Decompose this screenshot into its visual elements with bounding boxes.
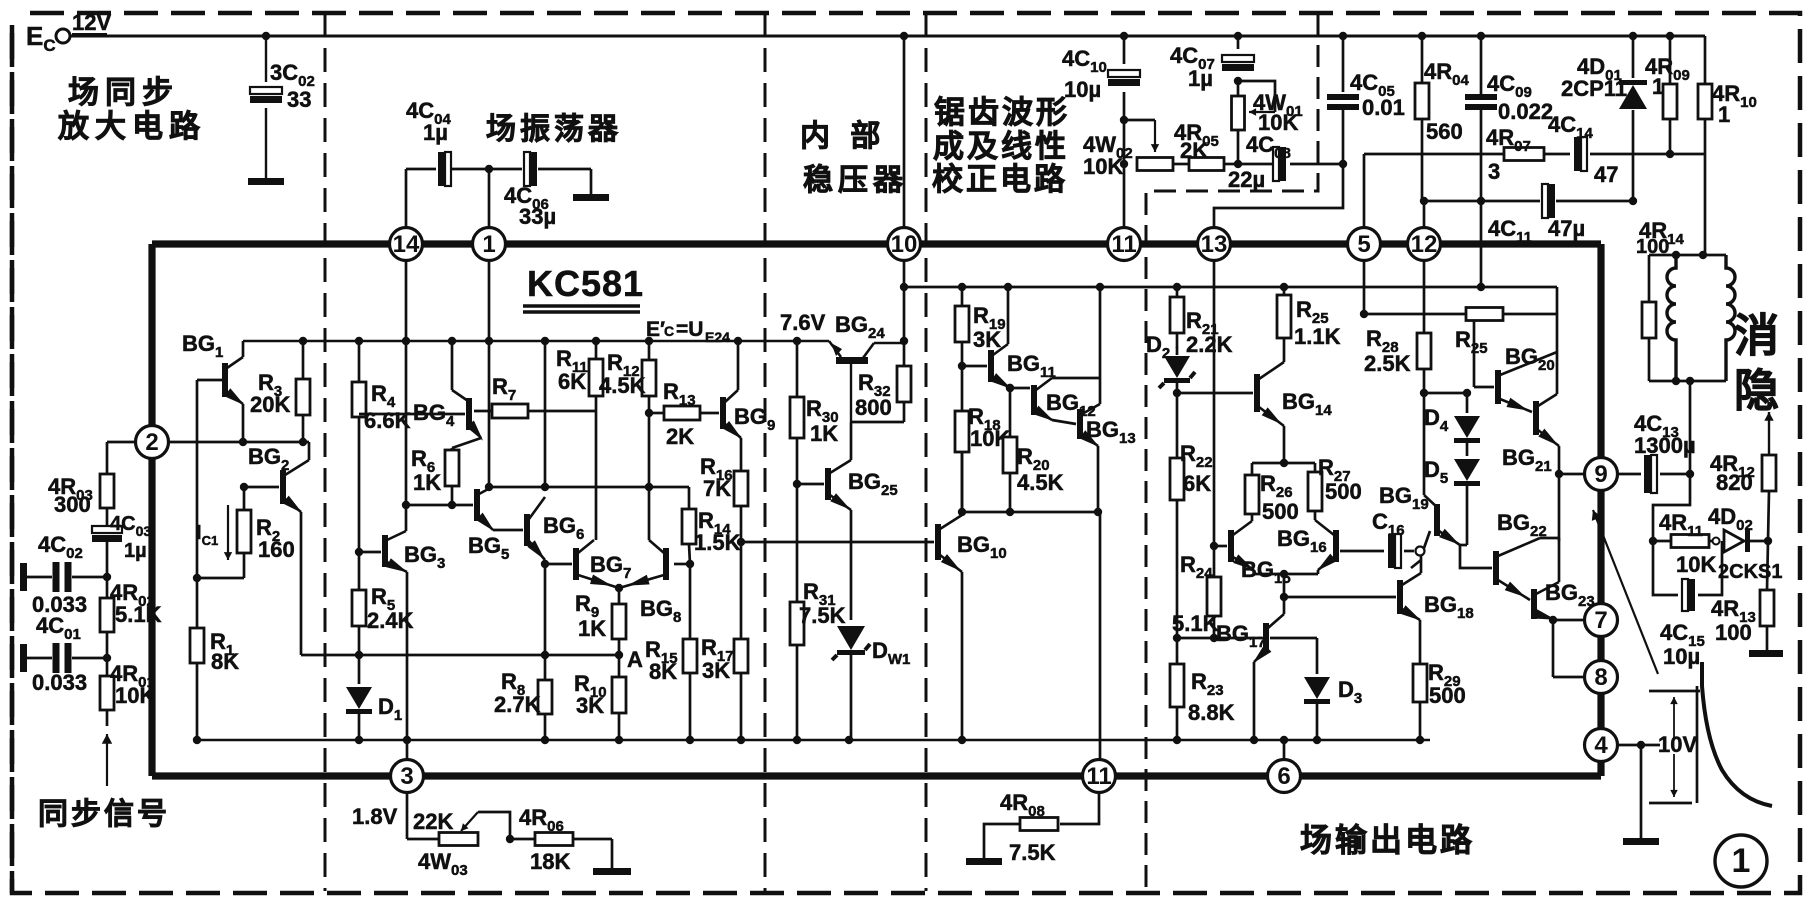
node: BG14 base node [1173, 389, 1181, 397]
svg-text:6.6K: 6.6K [364, 408, 411, 433]
wire: BG25 base [797, 483, 824, 486]
svg-text:22K: 22K [413, 809, 453, 834]
svg-text:4: 4 [1594, 732, 1608, 759]
svg-text:10V: 10V [1658, 732, 1697, 757]
wire: internal ground rail [197, 739, 1430, 742]
pin 6 [1268, 760, 1301, 793]
resistor R7 [474, 374, 596, 418]
resistor R27 500 [1308, 455, 1362, 520]
node: R9 top node [615, 584, 623, 592]
node: BG8 base dot [686, 560, 694, 568]
annotation arrow (to pin 9) [1592, 510, 1658, 674]
wire: 12V secondary net y287 [904, 286, 1557, 289]
wire: sync signal arrow [102, 734, 112, 786]
svg-text:22µ: 22µ [1228, 167, 1265, 192]
transistor BG9 [720, 390, 775, 439]
wire: BG5 base net [406, 504, 473, 507]
ground (3C02) [248, 178, 284, 185]
potentiometer 4W03 22K [413, 809, 510, 879]
svg-text:10K: 10K [1676, 552, 1716, 577]
resistor R22 6K [1170, 393, 1213, 638]
capacitor 4C10 10µ [1062, 46, 1140, 102]
diode D5 [1424, 441, 1480, 545]
resistor R23 8.8K [1170, 638, 1235, 740]
frame: section divider 3 (regulator / sawtooth) [925, 13, 928, 891]
wire: BG2 base link [244, 486, 279, 489]
svg-text:隐: 隐 [1734, 365, 1779, 416]
svg-text:KC581: KC581 [527, 263, 644, 304]
label: 场同步 放大电路 [57, 75, 206, 144]
pin 1 [473, 228, 506, 261]
wire: yoke bottom bar [1649, 380, 1726, 383]
capacitor 4C04 1µ [406, 98, 451, 186]
node: BG24 collector dot [900, 337, 908, 345]
svg-text:E′: E′ [646, 318, 665, 341]
terminal Ec (12V input) [26, 10, 111, 55]
resistor 4R14 100 [1636, 218, 1684, 381]
svg-text:18K: 18K [530, 849, 570, 874]
diode D2 (zener) [1146, 332, 1195, 393]
node: pin14 column dots [402, 501, 456, 509]
svg-text:8K: 8K [211, 649, 239, 674]
frame: section divider 4 (sawtooth / output, with jog) [1146, 13, 1318, 891]
potentiometer 4W02 10K [1083, 132, 1173, 179]
transistor BG24 (flat orientation) [829, 341, 904, 422]
diode 4D01 2CP11 [1561, 36, 1647, 201]
transistor BG19 [1379, 483, 1460, 545]
inductor: yoke left winding [1667, 255, 1676, 381]
svg-text:560: 560 [1426, 119, 1463, 144]
resistor R10 3K [574, 655, 626, 740]
wire: yoke top bar [1649, 254, 1726, 257]
label: KC581 [523, 263, 644, 312]
transistor BG20 [1495, 344, 1557, 412]
transistor BG17 [1216, 614, 1284, 664]
wire: pin5 bias net y314 [1360, 310, 1557, 318]
svg-text:3: 3 [1488, 159, 1500, 184]
svg-text:1K: 1K [413, 470, 441, 495]
svg-text:1.8V: 1.8V [352, 804, 398, 829]
resistor R21 2.2K [1170, 287, 1233, 357]
wire: +12V supply rail [70, 35, 1705, 38]
svg-text:8K: 8K [649, 659, 677, 684]
svg-text:1K: 1K [578, 616, 606, 641]
transistor BG6 [524, 497, 584, 560]
svg-text:3K: 3K [973, 327, 1001, 352]
node: BG3 base dot [355, 548, 363, 556]
wire: BG3 base [359, 551, 381, 554]
wire: BG12 base net [1006, 384, 1030, 392]
node: input junction lower [103, 654, 111, 662]
wire: 4W02-4R05 link [1173, 163, 1189, 166]
wire: BG11 collector [1004, 283, 1012, 344]
wire: BG25 emitter column [850, 510, 853, 620]
wire: 4C10 column [1123, 36, 1126, 228]
svg-text:100: 100 [1636, 236, 1669, 258]
node: A [355, 647, 643, 672]
svg-text:7: 7 [1594, 607, 1607, 634]
resistor R29 500 [1413, 620, 1466, 740]
node: 4R04 bottom dot [1420, 197, 1428, 205]
wire: yoke to 4C13 [1689, 381, 1692, 474]
svg-text:5: 5 [1357, 231, 1370, 258]
label: 内部 稳压器 [800, 119, 908, 197]
svg-text:10µ: 10µ [1663, 644, 1700, 669]
label: E'c=U_E24 [646, 318, 730, 345]
svg-text:=U: =U [676, 318, 703, 341]
resistor R25 (top) [1455, 308, 1503, 358]
transistor BG3 [382, 531, 445, 573]
wire: 4C09 column [1480, 36, 1483, 287]
wire: BG7 base [545, 563, 572, 566]
svg-text:10: 10 [891, 231, 918, 258]
capacitor 4C01 0.033 [32, 613, 87, 695]
wire: 4C03 to junction [106, 542, 109, 577]
resistor 4R12 820 [1710, 412, 1776, 541]
wire: BG9 emitter to R16 [740, 438, 743, 471]
ground (4R13) [1749, 650, 1783, 657]
svg-text:4.5K: 4.5K [1017, 470, 1064, 495]
node: yoke bottom dots [1672, 377, 1694, 385]
pin 10 [888, 228, 921, 261]
capacitor 4C06 33µ [504, 152, 556, 229]
svg-text:2CP11: 2CP11 [1561, 76, 1627, 101]
wire: BG8 base node [674, 563, 690, 566]
terminal: sync input lower [20, 644, 27, 672]
resistor R30 1K [790, 341, 839, 484]
svg-text:5.1K: 5.1K [115, 602, 162, 627]
svg-text:3: 3 [400, 763, 413, 790]
IC KC581 outline bus [152, 244, 1601, 776]
label: BG24 [835, 312, 885, 342]
capacitor 4C09 0.022 [1465, 71, 1553, 124]
resistor R26 500 [1245, 463, 1299, 524]
svg-text:1: 1 [1732, 842, 1751, 880]
svg-text:500: 500 [1262, 499, 1299, 524]
resistor 4R13 100 [1711, 541, 1774, 650]
resistor 4R06 18K [510, 805, 612, 874]
wire: BG23 emitter to pins 7/8 [1549, 616, 1584, 677]
wire: pin2 net [168, 441, 309, 444]
svg-text:消: 消 [1734, 310, 1779, 361]
wire: BG4 base [359, 413, 465, 416]
node: 4W01 top dot [1234, 77, 1242, 85]
svg-text:11: 11 [1086, 763, 1111, 790]
svg-text:160: 160 [258, 537, 295, 562]
wire: pin9 net column [1558, 474, 1561, 541]
svg-text:820: 820 [1716, 470, 1753, 495]
resistor R2 160 [197, 487, 295, 578]
diode 4D02 2CK1 [1708, 504, 1782, 583]
label: 锯齿波形成及线性校正电路 [932, 95, 1070, 197]
wire: BG10 collector [961, 452, 964, 515]
wire: BG14 base [1177, 392, 1253, 395]
resistor R11 6K [556, 341, 603, 540]
svg-text:500: 500 [1429, 683, 1466, 708]
pin 8 [1585, 661, 1618, 694]
resistor R13 2K [649, 379, 719, 449]
label: 消隐 [1734, 310, 1779, 416]
capacitor 4C07 1µ [1170, 43, 1254, 91]
wire: pin4 ground drop [1640, 745, 1643, 838]
node: BG15 base tap [1210, 542, 1218, 550]
wire: BG15/16 to BG18 base [1280, 574, 1396, 601]
wire: x1100 column to pin11 [1099, 512, 1102, 759]
wire: 4C05 column [1214, 36, 1343, 228]
node: 4D02 right node [1764, 537, 1772, 545]
wire: emitter join bar [1254, 570, 1318, 578]
resistor 4R08 7.5K [984, 790, 1058, 865]
wire: BG10 base net [741, 541, 934, 544]
wire: D5 to BG19 emitter [1460, 544, 1467, 547]
node: input junction upper [103, 573, 111, 581]
wire: 4W01 bottom [1237, 130, 1240, 164]
node: BG2 base dot [240, 483, 248, 491]
wire: BG2 emitter column [300, 512, 303, 655]
wire: pin6 stub [1283, 740, 1286, 759]
wire: lower input lead [27, 657, 107, 660]
transistor BG7 [573, 540, 631, 588]
wire: BG19 collector [1423, 393, 1426, 495]
svg-text:放大电路: 放大电路 [57, 109, 206, 144]
svg-text:10µ: 10µ [1064, 77, 1101, 102]
wire: BG3 emitter to pin3 [406, 572, 409, 759]
svg-text:7.6V: 7.6V [780, 310, 826, 335]
svg-text:0.01: 0.01 [1362, 95, 1405, 120]
current source Ic1 [196, 505, 232, 560]
resistor 4R11 10K [1653, 510, 1720, 577]
resistor R3 20K [250, 341, 310, 442]
node: supply junctions [262, 32, 1674, 40]
pin 13 [1198, 228, 1231, 261]
wire: BG6 base [493, 529, 523, 532]
wire: bias net y487 [489, 486, 689, 489]
pin 12 [1408, 228, 1441, 261]
svg-text:47: 47 [1594, 162, 1618, 187]
terminal: sync input upper [20, 563, 27, 591]
capacitor 4C05 0.01 [1327, 70, 1405, 120]
svg-text:5.1K: 5.1K [1172, 611, 1219, 636]
node: 4R09 bottom dot [1666, 150, 1674, 158]
wire: x1557 supply drop [1556, 287, 1559, 352]
wire: BG21 collector [1556, 352, 1559, 394]
resistor 4R04 560 [1415, 36, 1469, 201]
transistor BG16 [1277, 520, 1339, 571]
svg-text:3K: 3K [576, 693, 604, 718]
svg-text:2: 2 [145, 429, 158, 456]
svg-text:100: 100 [1715, 620, 1752, 645]
ground (pin4) [1623, 838, 1659, 845]
svg-text:11: 11 [1111, 231, 1136, 258]
wire: 4C06 leads [489, 169, 591, 194]
capacitor 3C02 33 [250, 60, 315, 112]
svg-text:2K: 2K [1180, 138, 1208, 163]
wire: pin1 column [488, 260, 491, 487]
ground (4C06) [573, 194, 609, 201]
wire: pin11 bottom stem [1060, 793, 1099, 824]
transistor BG25 [825, 460, 898, 510]
capacitor C16 [1372, 509, 1425, 568]
node: y287 dots [900, 283, 1485, 291]
transistor BG2 [248, 444, 309, 513]
wire: 4R07 feed [1364, 153, 1504, 156]
svg-text:2.7K: 2.7K [494, 692, 541, 717]
diode D4 [1424, 393, 1480, 443]
svg-text:7.5K: 7.5K [1009, 840, 1056, 865]
transistor BG4 [413, 390, 483, 441]
transistor BG1 [182, 331, 245, 405]
wire: x545 lower column [544, 560, 547, 678]
resistor R31 7.5K [790, 484, 846, 740]
resistor R32 800 [851, 341, 911, 422]
svg-text:800: 800 [855, 395, 892, 420]
wire: BG14 emitter [1283, 426, 1286, 463]
node: R19 bottom dot [958, 362, 966, 370]
wire: BG15 base [1214, 545, 1227, 548]
inductor: yoke right winding [1726, 255, 1735, 381]
svg-text:7.5K: 7.5K [799, 603, 846, 628]
wire: R26/R27 top bar [1252, 462, 1315, 465]
svg-text:1µ: 1µ [124, 540, 147, 562]
wire: BG21 emitter to pin9 [1555, 446, 1584, 478]
wire: BG2 collector up [308, 442, 311, 460]
transistor BG21 [1502, 394, 1559, 475]
node: 4R05/4W01 junction [1234, 160, 1242, 168]
svg-text:9: 9 [1594, 461, 1607, 488]
wire: x545 upper column [544, 341, 547, 487]
node: 4C10 bottom dots [1120, 116, 1128, 168]
wire: BG25 collector [850, 422, 853, 460]
wire: 4C11 net [1424, 200, 1633, 203]
svg-text:7K: 7K [703, 476, 731, 501]
svg-text:300: 300 [54, 492, 91, 517]
svg-text:500: 500 [1325, 479, 1362, 504]
svg-text:2.4K: 2.4K [367, 608, 414, 633]
wire: BG17 emitter [1253, 662, 1256, 740]
svg-text:6K: 6K [1183, 471, 1211, 496]
node: bias net dots [485, 483, 653, 491]
svg-text:3K: 3K [702, 658, 730, 683]
node: 4W03/4R06 junction [506, 835, 514, 843]
wire: BG13 base [1052, 420, 1076, 424]
capacitor 4C15 10µ [1653, 541, 1722, 669]
resistor R6 1K [411, 446, 459, 505]
diode D1 [346, 655, 402, 740]
potentiometer 4W01 10K [1232, 81, 1303, 135]
transistor BG13 [1077, 404, 1136, 447]
resistor 4R02 5.1K [100, 577, 162, 658]
resistor R19 3K [955, 287, 1006, 366]
transistor BG14 [1254, 362, 1332, 426]
wire: 4C07 column [1237, 36, 1240, 96]
svg-text:1µ: 1µ [1188, 66, 1213, 91]
svg-text:场振荡器: 场振荡器 [486, 113, 622, 146]
label: 场输出电路 [1300, 822, 1475, 858]
svg-text:1µ: 1µ [423, 120, 448, 145]
label: circled 1 [1715, 835, 1767, 887]
resistor R4 6.6K [352, 341, 411, 552]
node: 4C11 right dot [1629, 197, 1637, 205]
frame: section divider 1 (sync amp / oscillator) [324, 13, 327, 891]
wire: BG8 collector column [648, 487, 651, 540]
capacitor 4C14 47 [1548, 112, 1705, 187]
svg-text:场输出电路: 场输出电路 [1300, 822, 1475, 858]
capacitor 4C11 47µ [1488, 184, 1585, 246]
zener diode DW1 [832, 626, 910, 740]
ground (4R06) [593, 868, 631, 875]
resistor R20 4.5K [1003, 384, 1064, 512]
wire: pin3 stem [407, 759, 439, 839]
wire: BG9 collector to rail [737, 341, 740, 390]
svg-text:成及线性: 成及线性 [933, 129, 1069, 164]
node: 4R11 left node [1649, 537, 1657, 545]
wire: BG18 collector [1420, 560, 1423, 573]
wire: BG13 leads [1098, 378, 1100, 512]
pin 2 [136, 426, 169, 459]
pin 11 (top) [1108, 228, 1141, 261]
label: 1.8V [352, 804, 398, 829]
wire: D4 feed [1424, 389, 1471, 397]
wire: BG1 base column [197, 380, 222, 578]
wire: pin13 column [1213, 260, 1216, 577]
wire: 4R03 branch [107, 442, 136, 474]
svg-text:1: 1 [1652, 74, 1664, 99]
wire: BG17 base net [1173, 634, 1262, 642]
svg-text:1300µ: 1300µ [1634, 433, 1696, 458]
transistor BG5 [468, 487, 509, 563]
svg-text:1.1K: 1.1K [1294, 324, 1341, 349]
resistor R1 8K [190, 578, 239, 740]
svg-text:10K: 10K [115, 683, 155, 708]
svg-text:1: 1 [1718, 102, 1730, 127]
svg-text:10K: 10K [1083, 154, 1123, 179]
transistor BG15 [1228, 521, 1291, 587]
wire: BG12 collector [1052, 287, 1100, 378]
node: 4C04/4C06 junction [485, 165, 493, 173]
resistor R12 4.5K [599, 341, 656, 487]
wire: BG15 emitter drop [1254, 570, 1318, 574]
wire: BG16 base [1340, 550, 1384, 553]
svg-text:2.5K: 2.5K [1364, 351, 1411, 376]
wire: 4C13 to 4R11 node [1653, 474, 1690, 541]
node: yoke top dots [1672, 251, 1707, 259]
wire: BG4 emitter to R6 [452, 438, 481, 450]
svg-text:14: 14 [393, 231, 420, 258]
capacitor 4C02 0.033 [32, 532, 87, 617]
wire: pin5 stem [1363, 154, 1366, 314]
label: 场振荡器 [486, 113, 622, 146]
wire: BG4 collector to rail [451, 341, 454, 390]
waveform sketch [1702, 662, 1772, 806]
wire: pin1 top stem [488, 169, 491, 228]
diode D3 [1270, 638, 1362, 740]
ground (4R08) [966, 858, 1002, 865]
wire: BG1 collector to rail [242, 341, 245, 357]
svg-text:内 部: 内 部 [800, 119, 886, 153]
wire: pin14 column [405, 260, 408, 531]
svg-text:0.022: 0.022 [1498, 99, 1553, 124]
node: pin2 net dots [239, 438, 307, 446]
resistor R17 3K [701, 542, 748, 740]
resistor 4R05 2K [1174, 120, 1238, 171]
pin 5 [1348, 228, 1381, 261]
svg-text:同步信号: 同步信号 [38, 798, 170, 831]
svg-text:20K: 20K [250, 392, 290, 417]
wire: BG1 emitter down [242, 404, 245, 442]
transistor BG12 [1031, 378, 1096, 421]
svg-text:4.5K: 4.5K [599, 373, 646, 398]
node: E'c rail dots [299, 337, 801, 345]
